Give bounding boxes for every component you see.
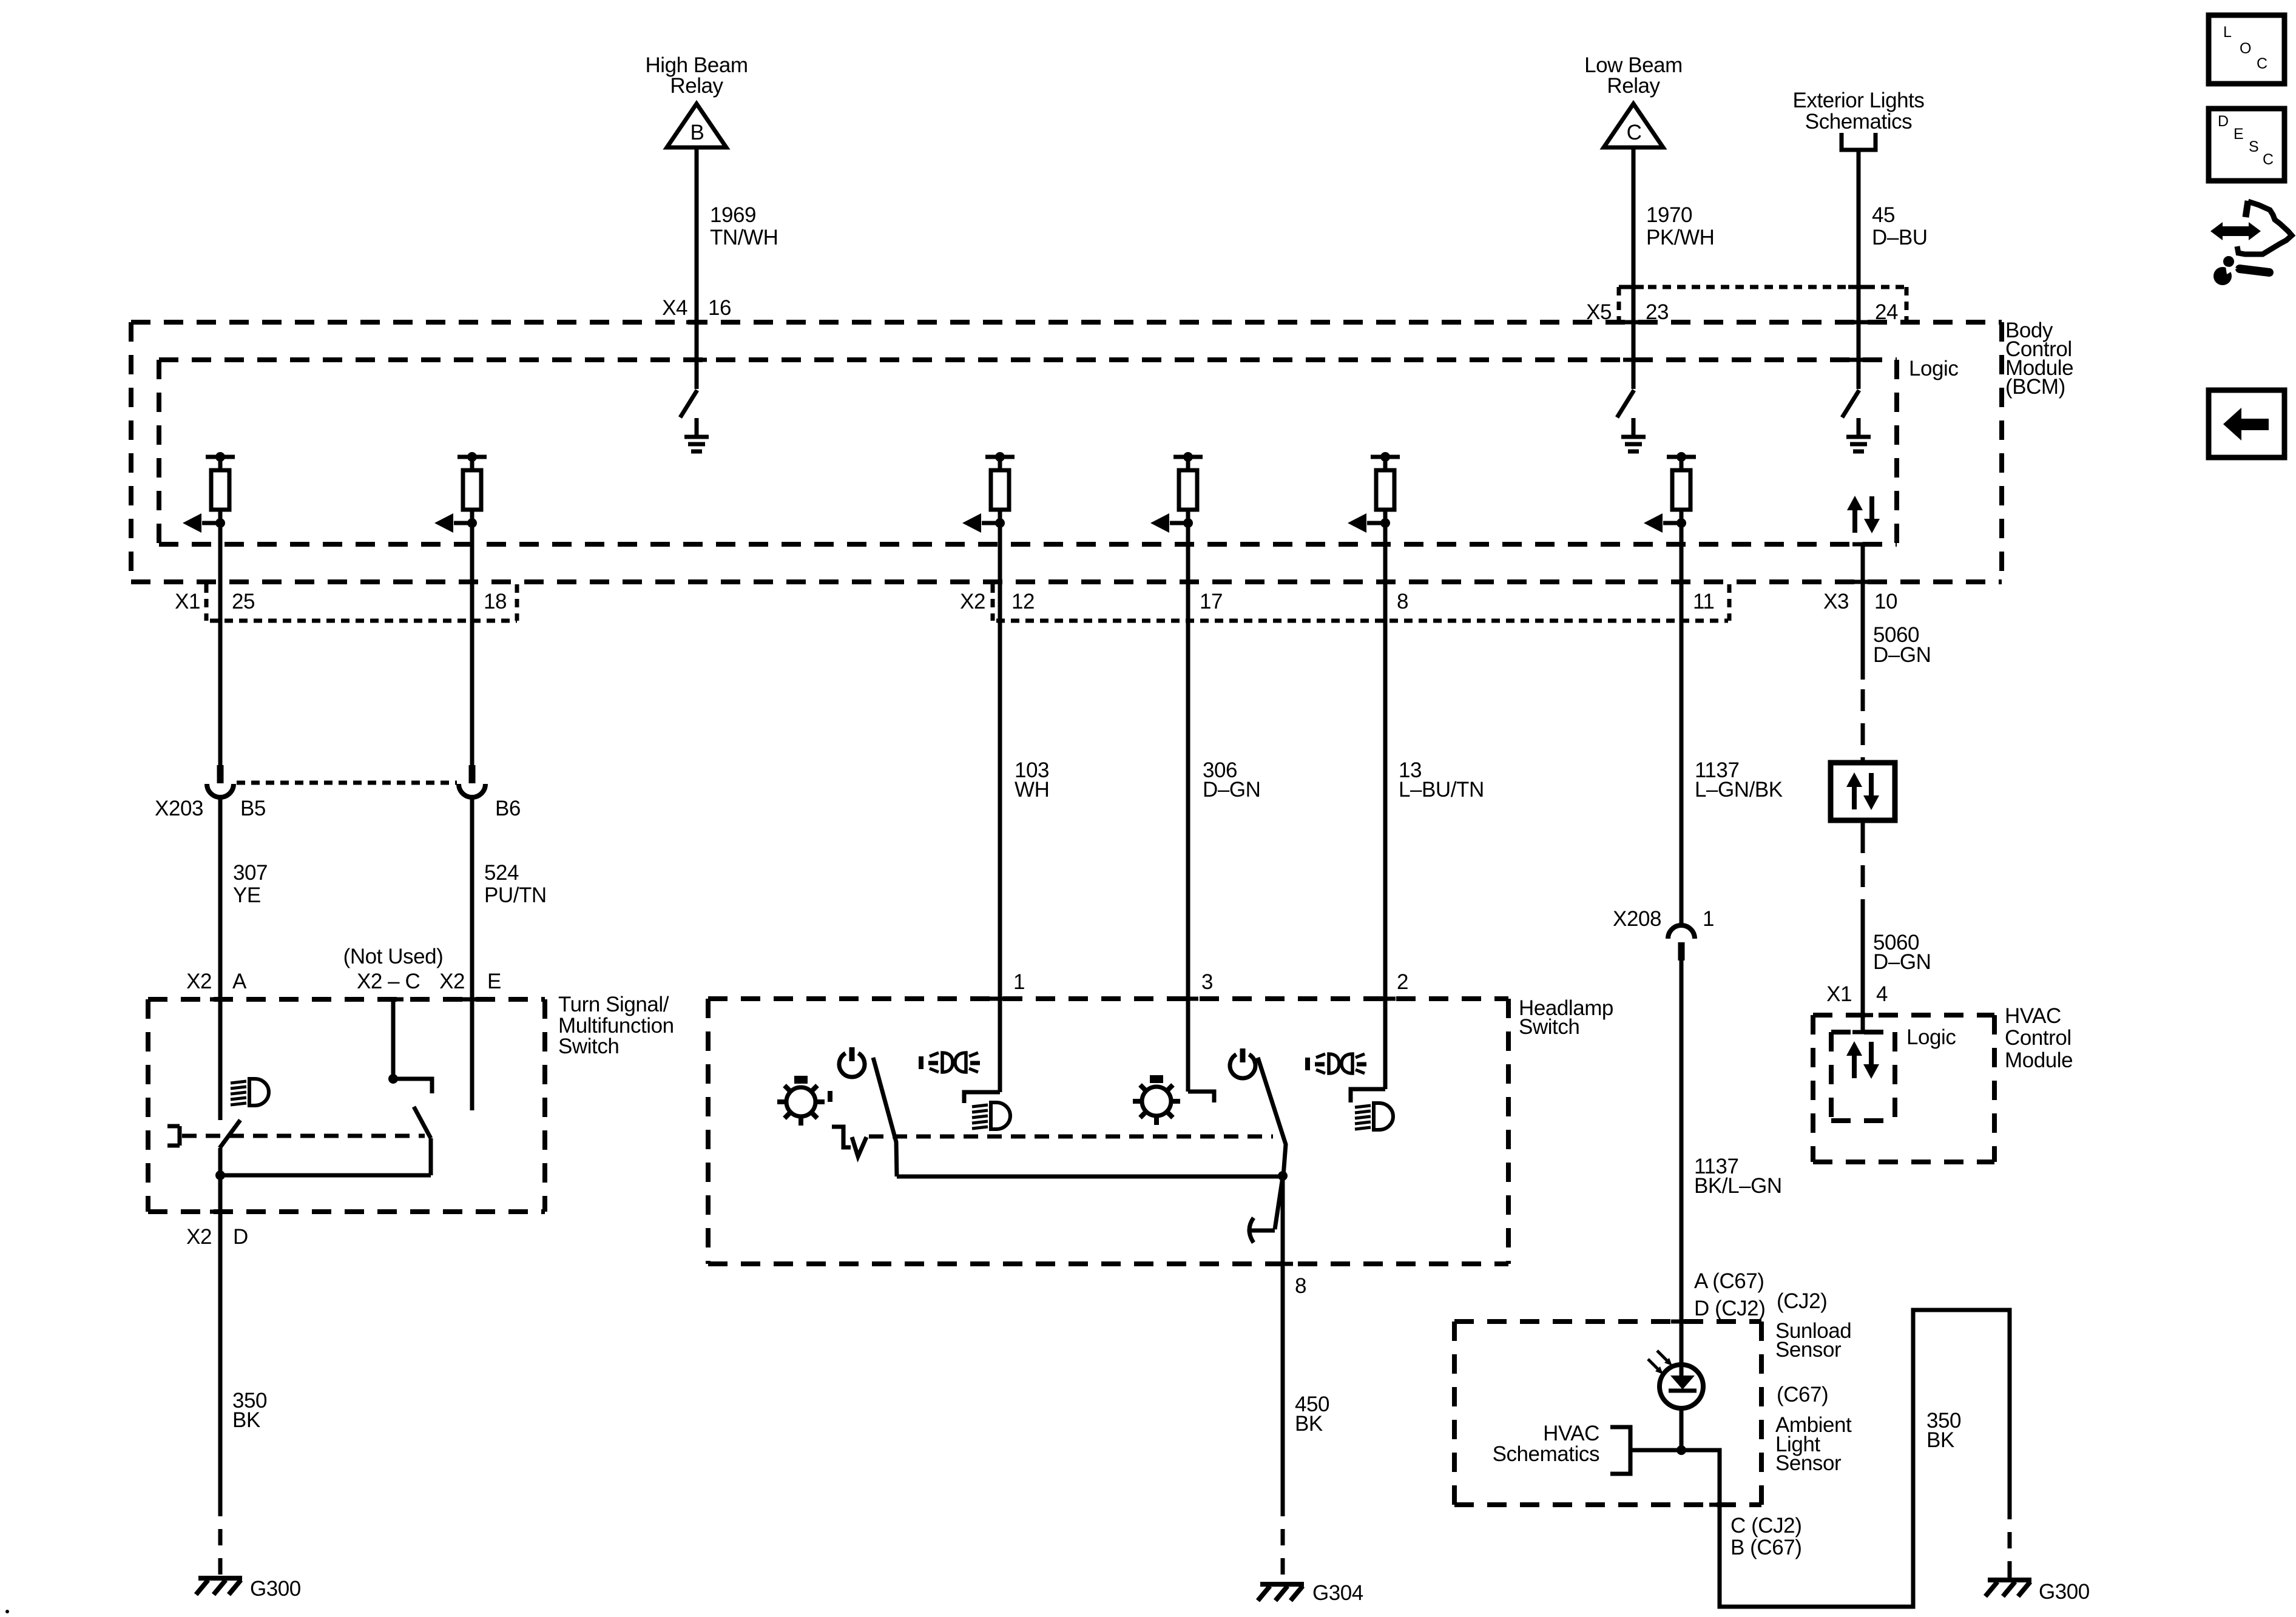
svg-text:E: E: [487, 970, 501, 993]
wire below photodiode: [1680, 1408, 1684, 1450]
svg-text:Sensor: Sensor: [1775, 1338, 1842, 1362]
value label 5060 D-GN upper: [1873, 623, 1931, 667]
connector X5 dotted box: [1619, 287, 1906, 322]
BCM serial data arrows: [1847, 496, 1880, 533]
wire 1 jog to contact: [964, 1092, 1000, 1103]
svg-text:10: 10: [1874, 590, 1897, 613]
tick serial data at logic box bottom: [1852, 542, 1873, 547]
svg-text:45: 45: [1872, 203, 1895, 227]
svg-text:G300: G300: [2039, 1580, 2090, 1604]
headlamp icon high beam: [1355, 1103, 1393, 1130]
pin labels X1 4: [1826, 982, 1888, 1006]
junction dot: [215, 1170, 225, 1180]
wire 8 output: [1281, 1176, 1285, 1500]
blade to momentary contact: [1275, 1177, 1283, 1229]
icon LOC box: [2209, 15, 2284, 84]
svg-text:X208: X208: [1613, 907, 1661, 931]
svg-text:Module: Module: [2005, 1048, 2073, 1072]
pin labels X2 D: [186, 1225, 248, 1249]
svg-text:8: 8: [1295, 1274, 1306, 1298]
serial data box: [1831, 763, 1895, 820]
svg-text:HVAC: HVAC: [2005, 1004, 2061, 1028]
pin labels X2 E: [439, 970, 501, 993]
svg-text:12: 12: [1011, 590, 1035, 613]
svg-text:C: C: [2257, 55, 2267, 72]
svg-text:(BCM): (BCM): [2005, 375, 2065, 399]
svg-text:TN/WH: TN/WH: [710, 226, 778, 249]
wire X3 dashed lower: [1861, 831, 1865, 908]
svg-text:307: 307: [233, 861, 268, 885]
svg-text:Switch: Switch: [558, 1035, 619, 1058]
tick wire B at BCM top: [686, 320, 707, 325]
svg-text:X2: X2: [186, 1225, 212, 1249]
connector row X1 dotted box: [206, 584, 517, 621]
svg-text:16: 16: [708, 296, 731, 320]
inline connector X203 B6: [459, 765, 485, 797]
svg-text:Switch: Switch: [1519, 1015, 1579, 1039]
value label 1137 L-GN/BK: [1695, 758, 1783, 802]
rotary switch symbol 2: [1133, 1075, 1180, 1125]
off position symbol: [832, 1127, 866, 1156]
svg-text:BK: BK: [1295, 1412, 1323, 1436]
svg-text:O: O: [2240, 40, 2251, 57]
light arrows: [1648, 1351, 1672, 1374]
Turn Signal Multifunction Switch dashed box: [148, 999, 545, 1212]
svg-text:2: 2: [1397, 970, 1408, 994]
value label 5060 D-GN lower: [1873, 931, 1931, 974]
power symbol 2: [1230, 1048, 1255, 1078]
wire pin 25 to X203: [218, 523, 223, 765]
icon back arrow box: [2209, 390, 2284, 457]
Sunload Ambient Light Sensor dashed box: [1454, 1322, 1761, 1505]
svg-text:L–BU/TN: L–BU/TN: [1399, 778, 1484, 802]
wire junction to beam select: [220, 1173, 431, 1178]
power symbol 1: [839, 1047, 865, 1077]
tick wire 23 at X5 connector: [1623, 285, 1644, 289]
svg-text:Relay: Relay: [670, 74, 723, 98]
tick wire 3 at box top: [1178, 997, 1198, 1001]
wire pin 18 to X203: [470, 523, 474, 765]
svg-text:BK/L–GN: BK/L–GN: [1694, 1174, 1782, 1198]
svg-text:C: C: [1627, 121, 1642, 144]
label Turn Signal Multifunction Switch: [558, 993, 674, 1058]
svg-text:PK/WH: PK/WH: [1646, 226, 1714, 249]
ground G300 left: [196, 1578, 242, 1595]
label Sunload Sensor: [1775, 1319, 1851, 1362]
BCM Logic inner dashed box: [159, 360, 1897, 544]
svg-text:X4: X4: [662, 296, 687, 320]
svg-text:BK: BK: [232, 1408, 260, 1432]
mechanical link dashed headlamp: [869, 1135, 1273, 1139]
ground exterior lights driver: [1846, 418, 1871, 451]
tick wire at sensor box bottom: [1709, 1503, 1730, 1507]
icon repair outline: [2237, 201, 2292, 254]
svg-text:X3: X3: [1823, 590, 1849, 613]
wire dashed to G304: [1281, 1500, 1285, 1582]
svg-text:C: C: [2263, 151, 2274, 168]
pin labels X1 25: [175, 590, 255, 613]
pin labels X3 10: [1823, 590, 1897, 613]
switch blade headlamp 1: [873, 1058, 897, 1176]
page artifact dot: [5, 1610, 9, 1613]
relay B triangle: [667, 104, 726, 147]
pin label X5 23: [1586, 300, 1669, 324]
pin labels X2 12: [960, 590, 1035, 613]
rotary switch symbol 1: [777, 1076, 825, 1126]
svg-text:524: 524: [484, 861, 519, 885]
tick wire 2 at box top: [1375, 997, 1396, 1001]
switch blade flash to pass: [220, 1120, 240, 1148]
svg-text:8: 8: [1397, 590, 1408, 613]
svg-text:C (CJ2): C (CJ2): [1730, 1514, 1801, 1538]
switch blade headlamp 2: [1258, 1058, 1286, 1176]
svg-text:B5: B5: [240, 797, 266, 820]
wire 5060 solid to HVAC: [1861, 908, 1865, 1032]
BCM driver resistor pin 17: [1150, 452, 1203, 533]
value label 103 WH: [1015, 758, 1049, 802]
svg-text:D (CJ2): D (CJ2): [1694, 1297, 1765, 1320]
svg-text:1: 1: [1703, 907, 1714, 931]
high beam indicator icon left: [919, 1053, 980, 1072]
BCM driver resistor pin 8: [1348, 452, 1400, 533]
BCM driver resistor pin 25: [183, 452, 235, 533]
label Headlamp Switch: [1519, 996, 1613, 1039]
Body Control Module outer dashed box: [131, 322, 2002, 582]
headlamp icon turn signal flash: [231, 1079, 269, 1106]
svg-text:X1: X1: [1826, 982, 1852, 1006]
svg-text:Schematics: Schematics: [1493, 1442, 1599, 1466]
value label 450 BK: [1295, 1393, 1329, 1436]
svg-text:Exterior Lights: Exterior Lights: [1793, 89, 1925, 112]
tick wire 23 at BCM top: [1623, 320, 1644, 325]
label High Beam Relay: [645, 53, 748, 98]
tick wire E at box top: [462, 998, 482, 1002]
ground G300 right: [1985, 1580, 2031, 1596]
off-page connector bracket: [1842, 133, 1876, 150]
svg-text:11: 11: [1693, 590, 1714, 613]
wire X3 pin 10: [1861, 544, 1865, 680]
svg-text:PU/TN: PU/TN: [484, 883, 547, 907]
mechanical link dashed: [182, 1134, 425, 1138]
tick wire at HVAC box top: [1852, 1013, 1873, 1018]
svg-text:X1: X1: [175, 590, 200, 613]
ground high beam driver: [684, 418, 709, 451]
label Low Beam Relay: [1584, 53, 1683, 98]
value label 350 BK: [232, 1389, 267, 1432]
svg-text:18: 18: [484, 590, 507, 613]
wire 3 jog to contact: [1188, 1092, 1214, 1102]
BCM driver resistor pin 11: [1644, 452, 1696, 533]
tick wire 24 at X5 connector: [1848, 285, 1869, 289]
svg-text:B: B: [690, 121, 704, 144]
headlamp icon low beam: [972, 1102, 1010, 1129]
tick wire at sensor box top: [1671, 1320, 1692, 1324]
HVAC schematics bracket: [1610, 1427, 1630, 1474]
wire blade to junction: [429, 1138, 433, 1175]
wire pin 17: [1186, 523, 1190, 1092]
svg-text:D: D: [2218, 113, 2229, 130]
icon DESC box: [2209, 109, 2284, 181]
stub X2-C: [391, 999, 396, 1079]
HVAC serial data arrows: [1846, 1041, 1879, 1079]
labels X208 1: [1613, 907, 1714, 931]
value label 306 D-GN: [1203, 758, 1260, 802]
contact bracket X2-C: [393, 1079, 432, 1093]
svg-text:Control: Control: [2005, 1026, 2071, 1050]
svg-text:4: 4: [1876, 982, 1888, 1006]
svg-text:Relay: Relay: [1607, 74, 1660, 98]
stub below serial data box: [1861, 820, 1865, 831]
svg-text:S: S: [2249, 138, 2258, 155]
wire switch common: [897, 1175, 1283, 1179]
svg-text:Turn Signal/: Turn Signal/: [558, 993, 669, 1016]
HVAC Control Module dashed box: [1813, 1015, 1994, 1162]
svg-text:L: L: [2223, 24, 2232, 41]
svg-text:D–GN: D–GN: [1873, 643, 1931, 667]
Headlamp Switch dashed box: [708, 999, 1508, 1264]
svg-text:3: 3: [1201, 970, 1213, 994]
icon repair double arrow: [2210, 222, 2261, 240]
label Body Control Module (BCM): [2005, 319, 2073, 399]
svg-text:D–GN: D–GN: [1873, 950, 1931, 974]
inline connector X208: [1668, 925, 1695, 960]
svg-text:X2: X2: [960, 590, 985, 613]
pin labels X2 A: [186, 970, 247, 993]
svg-text:Logic: Logic: [1906, 1025, 1956, 1049]
svg-text:B (C67): B (C67): [1730, 1536, 1801, 1559]
wire 45 D-BU: [1857, 150, 1861, 389]
tick wire 23 at logic box top: [1623, 358, 1644, 362]
inline connector X203 B5: [207, 765, 234, 797]
high beam indicator icon right: [1305, 1054, 1366, 1073]
svg-text:BK: BK: [1926, 1428, 1954, 1452]
mechanical link bracket: [167, 1126, 180, 1146]
svg-text:1: 1: [1013, 970, 1025, 994]
wire pin 11 to X208: [1680, 523, 1684, 925]
label Exterior Lights Schematics: [1793, 89, 1925, 133]
wire dashed to G300 right: [2008, 1503, 2012, 1578]
connector row X2 dotted box: [993, 584, 1729, 621]
pin label X4 16: [662, 296, 731, 320]
wire X3 dashed upper: [1861, 689, 1865, 763]
switch blade beam select: [414, 1107, 431, 1138]
relay C triangle: [1604, 104, 1663, 147]
label HVAC Control Module: [2005, 1004, 2073, 1072]
tick wire D at box bottom: [210, 1210, 231, 1214]
svg-text:A: A: [232, 970, 247, 993]
svg-text:D: D: [233, 1225, 248, 1249]
ground low beam driver: [1621, 418, 1646, 451]
svg-text:D–GN: D–GN: [1203, 778, 1260, 802]
svg-text:YE: YE: [233, 883, 261, 907]
svg-text:WH: WH: [1015, 778, 1049, 802]
svg-text:Schematics: Schematics: [1805, 110, 1912, 133]
wire 1137 BK/L-GN: [1680, 960, 1684, 1365]
svg-text:X2: X2: [439, 970, 465, 993]
wire sensor output: [1630, 1310, 2010, 1607]
labels X203 B5 B6: [155, 797, 521, 820]
value label 13 L-BU/TN: [1399, 758, 1484, 802]
switch low beam driver: [1617, 390, 1634, 417]
wire pin 8: [1383, 523, 1388, 1089]
svg-text:(C67): (C67): [1777, 1383, 1828, 1406]
wire 2 jog to contact: [1351, 1089, 1385, 1102]
svg-text:A (C67): A (C67): [1694, 1269, 1764, 1293]
icon wrench: [2213, 256, 2269, 285]
wire 1970 PK/WH from relay C: [1632, 147, 1636, 389]
tick wire 8 at box bottom: [1272, 1262, 1293, 1266]
HVAC Logic inner dashed box: [1831, 1032, 1895, 1121]
rotary position mark: [828, 1091, 832, 1102]
svg-text:E: E: [2234, 126, 2243, 143]
svg-text:L–GN/BK: L–GN/BK: [1695, 778, 1783, 802]
svg-text:1970: 1970: [1646, 203, 1692, 227]
svg-text:D–BU: D–BU: [1872, 226, 1928, 249]
junction dot sensor output: [1676, 1445, 1686, 1455]
switch high beam driver: [680, 390, 697, 417]
tick wire 24 at BCM top: [1848, 320, 1869, 325]
label Ambient Light Sensor: [1775, 1413, 1852, 1475]
tick X3 wire at BCM bottom: [1852, 580, 1873, 584]
photodiode sunload sensor: [1660, 1365, 1703, 1408]
value label 1137 BK/L-GN: [1694, 1155, 1782, 1198]
svg-text:(Not Used): (Not Used): [343, 945, 444, 968]
svg-text:X203: X203: [155, 797, 203, 820]
momentary contact hook: [1249, 1218, 1275, 1243]
svg-text:(CJ2): (CJ2): [1777, 1289, 1827, 1313]
contact dot X2-C: [388, 1074, 398, 1084]
svg-text:Sensor: Sensor: [1775, 1451, 1842, 1475]
junction dot common: [1278, 1171, 1288, 1181]
BCM driver resistor pin 12: [962, 452, 1015, 533]
BCM driver resistor pin 18: [434, 452, 487, 533]
svg-text:X2: X2: [186, 970, 212, 993]
tick wire A at box top: [210, 998, 231, 1002]
svg-text:Logic: Logic: [1909, 357, 1958, 380]
wire 307 YE below X203: [218, 797, 223, 1120]
value label 45 D-BU: [1872, 203, 1928, 249]
wire below blade: [218, 1148, 223, 1500]
svg-text:B6: B6: [495, 797, 521, 820]
tick stub C at box top: [383, 998, 403, 1002]
value label 350 BK right: [1926, 1409, 1961, 1452]
label HVAC Schematics: [1493, 1422, 1599, 1466]
switch exterior lights driver: [1842, 390, 1859, 417]
ground G304: [1258, 1584, 1304, 1601]
tick wire 24 at logic box top: [1848, 358, 1869, 362]
wire 524 PU/TN below X203: [470, 797, 474, 1110]
wire dashed to G300: [218, 1500, 223, 1576]
value label 524 PU/TN: [484, 861, 547, 907]
tick wire B at logic box top: [686, 358, 707, 362]
X203 connector link dotted: [237, 781, 457, 785]
value label 1970 PK/WH: [1646, 203, 1714, 249]
svg-text:G304: G304: [1312, 1581, 1363, 1605]
tick wire 1 at box top: [990, 997, 1010, 1001]
svg-text:25: 25: [232, 590, 255, 613]
tick wire at HVAC logic top: [1852, 1030, 1873, 1035]
svg-text:X2 – C: X2 – C: [357, 970, 420, 993]
svg-text:17: 17: [1200, 590, 1223, 613]
svg-text:1969: 1969: [710, 203, 756, 227]
svg-text:G300: G300: [250, 1577, 301, 1601]
value label 1969 TN/WH: [710, 203, 778, 249]
wire pin 12: [998, 523, 1002, 1092]
value label 307 YE: [233, 861, 268, 907]
wire 1969 TN/WH from relay B: [695, 147, 699, 389]
